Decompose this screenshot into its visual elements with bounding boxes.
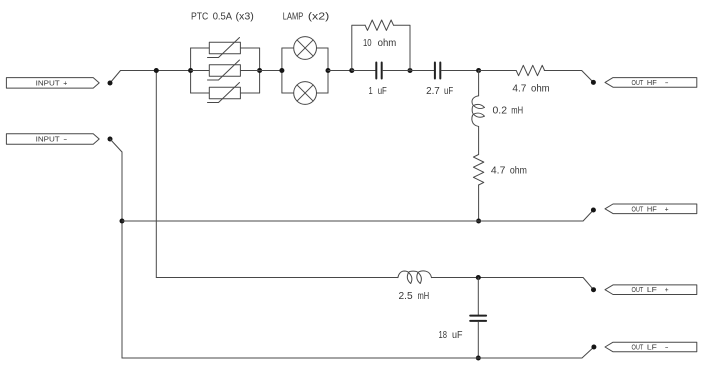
junction INPUT+ dot <box>108 81 113 86</box>
wire 1uF left lead <box>352 70 376 72</box>
wire OUT HF+ return line <box>122 210 593 221</box>
svg-text:1uF: 1uF <box>369 86 387 97</box>
resistor 4.7 ohm (HF series) <box>516 65 544 75</box>
node OUT HF + tag <box>605 204 697 214</box>
node OUT LF - tag <box>605 342 697 352</box>
wire PTC left bus <box>190 48 192 93</box>
wire resistor down to HF+ return line <box>478 185 480 221</box>
wire 2.7uF to HF junction <box>441 70 479 72</box>
svg-text:PTC0.5A(x3): PTC0.5A(x3) <box>191 11 254 22</box>
wire LF tap down to capacitor <box>477 278 479 315</box>
junction OUT HF+ dot <box>591 208 596 213</box>
wire rail lamps to 1uF section <box>328 70 352 72</box>
capacitor 1 uF <box>376 63 381 79</box>
wire INPUT- slant to left bus <box>110 139 122 152</box>
inductor 2.5 mH <box>398 271 432 284</box>
wire left vertical bus INPUT- down to bottom rail <box>121 152 123 358</box>
capacitor 2.7 uF <box>435 63 440 79</box>
junction OUT LF+ dot <box>591 287 596 292</box>
junction capacitor on bottom rail <box>476 356 481 361</box>
wire INPUT+ slant to top rail <box>110 71 121 84</box>
lamp 2 <box>294 82 317 105</box>
junction LF cap tap <box>476 275 481 280</box>
junction OUT LF- dot <box>591 345 596 350</box>
svg-text:4.7ohm: 4.7ohm <box>512 84 549 95</box>
wire rail to 4.7 ohm HF resistor <box>479 70 517 72</box>
wire PTC middle row leads <box>191 70 260 72</box>
wire lamp right bus <box>327 48 329 93</box>
wire HF junction down to inductor <box>478 71 480 96</box>
wire capacitor down to bottom rail <box>477 322 479 358</box>
wire rail PTC to lamps <box>260 70 282 72</box>
node INPUT - tag <box>6 134 99 144</box>
wire LF feed line right segment <box>432 278 594 290</box>
node INPUT + tag <box>6 78 99 89</box>
wire PTC bottom row leads <box>191 92 260 94</box>
wire top rail left segment <box>121 70 191 72</box>
junction OUT HF- dot <box>591 80 596 85</box>
svg-text:10ohm: 10ohm <box>363 38 396 49</box>
wire 10 ohm bypass loop left riser <box>352 25 365 70</box>
wire 10 ohm bypass loop right riser <box>394 25 411 70</box>
svg-text:2.7uF: 2.7uF <box>426 86 453 97</box>
PTC thermistor 2 <box>208 60 241 80</box>
wire rail to 2.7uF <box>410 70 434 72</box>
wire inductor to vertical resistor <box>478 127 480 155</box>
wire vertical bus from top rail to LF feed <box>155 71 157 278</box>
resistor 10 ohm <box>365 20 393 30</box>
junction top rail / vertical bus <box>154 68 159 73</box>
wire LF feed line left segment <box>156 277 398 279</box>
svg-text:0.2mH: 0.2mH <box>493 106 524 117</box>
svg-text:18uF: 18uF <box>439 330 463 341</box>
junction PTC left bus on rail <box>188 68 193 73</box>
junction PTC right bus on rail <box>257 68 262 73</box>
svg-text:LAMP(x2): LAMP(x2) <box>283 11 329 22</box>
junction lamp right bus on rail <box>326 68 331 73</box>
wire bottom rail <box>122 347 594 358</box>
junction lamp left bus on rail <box>279 68 284 73</box>
junction left bus HF+ branch <box>120 219 125 224</box>
wire lamp bottom leads <box>282 92 328 94</box>
wire resistor to OUT HF- slant <box>544 71 593 83</box>
junction HF shunt on return line <box>476 219 481 224</box>
junction HF split <box>476 68 481 73</box>
node OUT HF - tag <box>605 78 697 88</box>
wire lamp top leads <box>282 47 328 49</box>
inductor 0.2 mH <box>472 96 485 127</box>
junction parallel section left <box>349 68 354 73</box>
PTC thermistor 1 <box>208 38 241 58</box>
junction INPUT- dot <box>108 137 113 142</box>
svg-text:INPUT+: INPUT+ <box>36 78 68 87</box>
PTC thermistor 3 <box>208 83 241 103</box>
capacitor 18 uF <box>470 316 486 321</box>
junction parallel section right <box>408 68 413 73</box>
lamp 1 <box>294 37 317 60</box>
svg-text:2.5mH: 2.5mH <box>399 291 430 302</box>
node OUT LF + tag <box>605 285 697 295</box>
wire PTC right bus <box>259 48 261 93</box>
svg-text:4.7ohm: 4.7ohm <box>491 166 527 177</box>
svg-text:INPUT-: INPUT- <box>36 135 68 144</box>
resistor 4.7 ohm (HF shunt) <box>473 155 483 186</box>
wire 1uF right lead <box>382 70 410 72</box>
wire lamp left bus <box>281 48 283 93</box>
wire PTC top row leads <box>191 47 260 49</box>
